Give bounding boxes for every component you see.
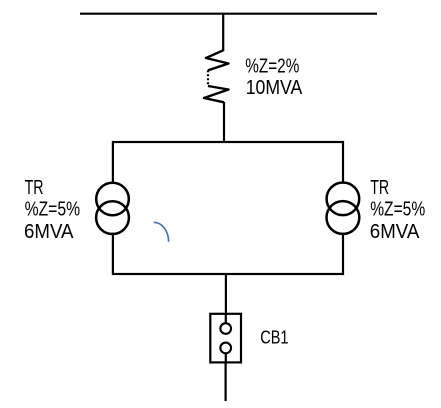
svg-text:%Z=5%: %Z=5% xyxy=(25,199,81,221)
svg-text:CB1: CB1 xyxy=(260,327,288,348)
svg-text:%Z=2%: %Z=2% xyxy=(245,55,299,77)
wire: loop rectangle bottom to breaker CB1 xyxy=(225,274,227,322)
svg-text:TR: TR xyxy=(370,177,389,199)
breaker CB1 body xyxy=(210,314,241,363)
loop rectangle (paralleling bus between transformers) xyxy=(113,142,343,274)
svg-text:TR: TR xyxy=(25,177,44,199)
transformer T-right white mask xyxy=(328,184,358,233)
svg-text:10MVA: 10MVA xyxy=(246,77,303,99)
transformer T-right (TR %Z=5% 6MVA) xyxy=(327,183,360,234)
transformer T-left white mask xyxy=(97,184,127,233)
svg-text:%Z=5%: %Z=5% xyxy=(370,199,425,221)
svg-text:6MVA: 6MVA xyxy=(24,221,74,243)
bus bar (top horizontal bus) xyxy=(80,13,377,15)
svg-text:6MVA: 6MVA xyxy=(370,221,420,243)
transformer T-left (TR %Z=5% 6MVA) xyxy=(96,183,129,234)
wire stub inside CB1 (top) xyxy=(225,314,227,323)
wire: bus to resistor top xyxy=(222,13,224,51)
resistor Z1 dotted mid-section xyxy=(207,70,209,86)
wire stub inside CB1 (bottom) xyxy=(225,354,227,363)
resistor Z1 lower zigzag xyxy=(204,86,229,102)
breaker CB1 top contact circle xyxy=(220,323,231,334)
wire: resistor to loop rectangle top xyxy=(223,102,225,142)
stray blue arc (freeform mark) xyxy=(154,222,169,241)
wire: breaker CB1 to feeder (bottom lead) xyxy=(225,362,227,401)
breaker CB1 bottom contact circle xyxy=(220,343,231,354)
resistor Z1 upper zigzag (%Z=2% 10MVA source impedance) xyxy=(206,50,229,70)
